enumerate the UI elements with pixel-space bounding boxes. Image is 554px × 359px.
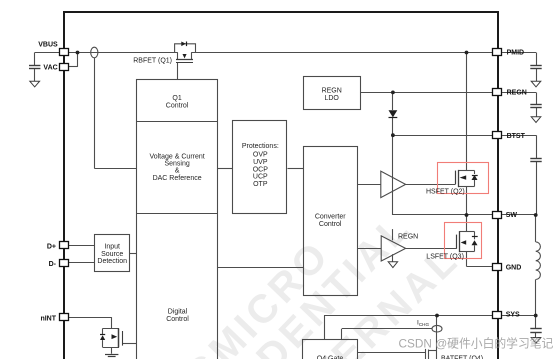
svg-text:Digital: Digital bbox=[168, 309, 188, 316]
svg-text:Q4 Gate: Q4 Gate bbox=[317, 355, 344, 359]
svg-text:D+: D+ bbox=[47, 243, 56, 250]
svg-text:PMID: PMID bbox=[507, 50, 524, 57]
svg-text:Control: Control bbox=[166, 103, 189, 110]
svg-text:BATFET (Q4): BATFET (Q4) bbox=[441, 356, 483, 359]
svg-text:GND: GND bbox=[506, 265, 522, 272]
svg-text:CSDN @硬件小白的学习笔记: CSDN @硬件小白的学习笔记 bbox=[399, 337, 554, 351]
svg-text:nINT: nINT bbox=[40, 315, 56, 322]
svg-text:Control: Control bbox=[319, 221, 342, 228]
svg-text:DAC Reference: DAC Reference bbox=[153, 175, 202, 182]
svg-text:LSFET (Q3): LSFET (Q3) bbox=[426, 253, 464, 260]
svg-text:SYS: SYS bbox=[506, 311, 520, 318]
svg-text:OVP: OVP bbox=[253, 152, 268, 159]
svg-text:Input: Input bbox=[104, 243, 120, 250]
svg-text:Converter: Converter bbox=[315, 214, 346, 221]
svg-text:Voltage & Current: Voltage & Current bbox=[149, 153, 204, 160]
svg-text:LDO: LDO bbox=[324, 95, 339, 102]
svg-text:Source: Source bbox=[101, 251, 123, 258]
svg-text:RBFET (Q1): RBFET (Q1) bbox=[133, 58, 172, 65]
svg-text:BTST: BTST bbox=[507, 133, 526, 140]
svg-text:REGN: REGN bbox=[398, 233, 418, 240]
svg-text:UVP: UVP bbox=[253, 159, 268, 166]
svg-text:Detection: Detection bbox=[97, 258, 127, 265]
svg-text:OCP: OCP bbox=[253, 166, 269, 173]
svg-text:VAC: VAC bbox=[43, 64, 57, 71]
svg-text:D-: D- bbox=[49, 261, 57, 268]
svg-text:SW: SW bbox=[506, 212, 518, 219]
svg-text:Sensing: Sensing bbox=[164, 161, 189, 168]
svg-text:REGN: REGN bbox=[322, 88, 342, 95]
svg-text:Control: Control bbox=[166, 316, 189, 323]
svg-text:ICHG: ICHG bbox=[417, 320, 429, 327]
svg-text:Q1: Q1 bbox=[172, 95, 181, 102]
svg-text:REGN: REGN bbox=[507, 90, 527, 97]
svg-text:Protections:: Protections: bbox=[242, 143, 279, 150]
svg-text:VBUS: VBUS bbox=[38, 42, 58, 49]
svg-text:&: & bbox=[175, 168, 180, 175]
svg-text:OTP: OTP bbox=[253, 181, 268, 188]
svg-text:HSFET (Q2): HSFET (Q2) bbox=[426, 188, 465, 195]
svg-text:UCP: UCP bbox=[253, 174, 268, 181]
